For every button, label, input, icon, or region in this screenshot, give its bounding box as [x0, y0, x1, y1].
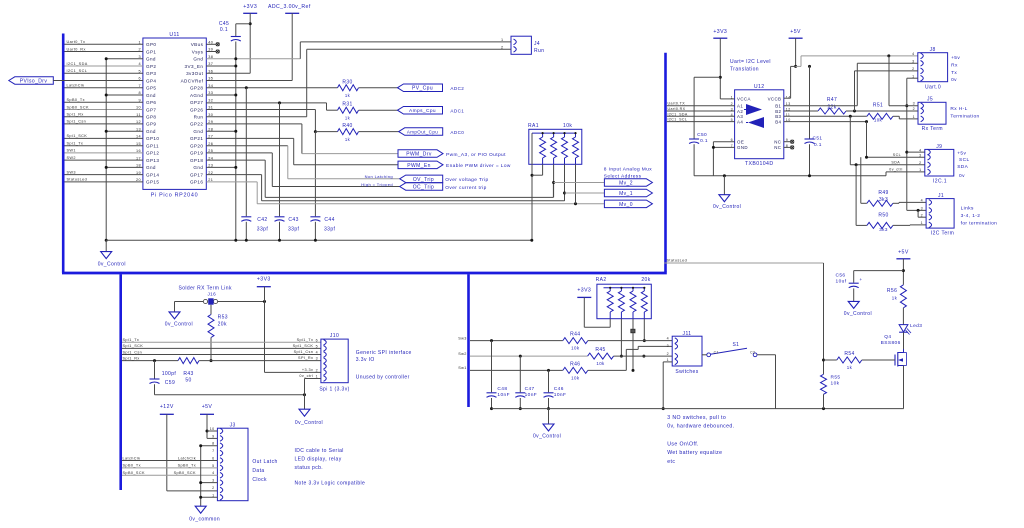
svg-text:LatchClk: LatchClk: [67, 84, 85, 88]
svg-text:R40: R40: [342, 123, 352, 129]
svg-text:GP28: GP28: [190, 86, 203, 91]
resistor R55: [821, 374, 841, 408]
svg-text:Spi1_Tx: Spi1_Tx: [67, 142, 84, 146]
node Mv_2 flag: [554, 179, 653, 187]
svg-text:VCCA: VCCA: [737, 97, 751, 102]
svg-text:Amps_Cpu: Amps_Cpu: [409, 108, 436, 114]
text logic note: [295, 481, 366, 487]
power +3V3 bottom right: [577, 287, 610, 327]
svg-text:Sw1: Sw1: [458, 366, 467, 370]
svg-text:0.1: 0.1: [220, 27, 228, 33]
wire RA1 r1 leg: [532, 164, 543, 175]
svg-text:2: 2: [921, 213, 923, 217]
svg-text:GP21: GP21: [190, 136, 203, 141]
wire RA1 r3 leg: [563, 164, 566, 201]
svg-text:RA1: RA1: [528, 123, 539, 129]
svg-text:Sw3: Sw3: [458, 336, 467, 340]
svg-text:C43: C43: [288, 217, 298, 223]
svg-text:Mv_0: Mv_0: [619, 202, 633, 208]
wire SpB0_SCK row: [122, 471, 217, 475]
node Mv_1 flag: [565, 189, 653, 197]
svg-text:Enable PWM driver = Low: Enable PWM driver = Low: [446, 163, 511, 169]
connector J3: [210, 423, 278, 501]
svg-text:C56: C56: [836, 273, 846, 279]
node OC_Trip flag: [400, 183, 487, 191]
wire GP22 to PWM_Drv: [206, 124, 398, 154]
svg-text:GP6: GP6: [146, 100, 156, 105]
svg-text:BSS806: BSS806: [881, 340, 901, 346]
capacitor C47: [515, 356, 537, 410]
svg-text:R55: R55: [831, 375, 841, 381]
svg-text:8 Input Analog Mux: 8 Input Analog Mux: [604, 167, 652, 173]
svg-text:Gnd: Gnd: [146, 93, 156, 98]
svg-text:GP27: GP27: [190, 100, 203, 105]
svg-text:1k: 1k: [847, 365, 853, 370]
wire Sw2 row: [458, 352, 587, 358]
node Amps_Cpu flag: [398, 107, 465, 115]
svg-text:R51: R51: [873, 103, 883, 109]
svg-text:Termination: Termination: [950, 114, 979, 120]
svg-text:+3V3: +3V3: [243, 4, 257, 10]
svg-text:0v_Control: 0v_Control: [713, 204, 741, 210]
svg-text:10k: 10k: [563, 123, 572, 129]
svg-text:SPI_Rx: SPI_Rx: [298, 356, 313, 360]
svg-text:3 NO switches, pull to: 3 NO switches, pull to: [667, 415, 726, 421]
svg-text:3-4, 1-2: 3-4, 1-2: [961, 213, 981, 219]
capacitor C46: [544, 370, 567, 410]
svg-text:Spi1_SCK: Spi1_SCK: [123, 344, 144, 348]
svg-text:+5V: +5V: [202, 404, 213, 410]
svg-text:R54: R54: [844, 351, 854, 357]
ground 0v_common: [189, 506, 220, 522]
svg-text:Uart.0: Uart.0: [925, 85, 941, 91]
wire J16 left to gnd: [175, 302, 204, 312]
svg-text:+12V: +12V: [160, 404, 174, 410]
svg-text:Run: Run: [194, 115, 204, 120]
resistor R30: [206, 80, 397, 99]
svg-text:Links: Links: [961, 206, 974, 212]
svg-text:Data: Data: [252, 468, 264, 474]
svg-text:GP17: GP17: [190, 172, 203, 177]
svg-text:GP5: GP5: [146, 86, 156, 91]
U11 pin names and numbers: [136, 41, 213, 185]
wire J3 gnd pins: [199, 444, 217, 506]
node PWM_En flag: [398, 161, 511, 169]
svg-text:PVIso_Drv: PVIso_Drv: [20, 79, 48, 85]
connector J4: [501, 36, 544, 54]
wire GP18 step: [206, 160, 553, 197]
svg-text:10k: 10k: [831, 380, 840, 386]
svg-text:R45: R45: [595, 347, 605, 353]
U12 part name: [745, 161, 774, 167]
wire Q4 source to rail: [903, 366, 905, 409]
svg-text:Unused by controller: Unused by controller: [356, 375, 410, 381]
wire SPI rows: [122, 338, 321, 354]
wire J11 pin1 to rail: [662, 362, 673, 410]
svg-text:20k: 20k: [218, 322, 227, 328]
svg-text:B1: B1: [775, 104, 781, 109]
led Led3: [899, 323, 922, 349]
svg-text:4: 4: [919, 148, 921, 152]
svg-text:4: 4: [912, 52, 914, 56]
svg-text:R46: R46: [570, 362, 580, 368]
svg-text:Spi1_Tx: Spi1_Tx: [123, 338, 140, 342]
svg-text:GP9: GP9: [146, 122, 156, 127]
svg-text:GP10: GP10: [146, 136, 159, 141]
svg-text:2: 2: [919, 161, 921, 165]
sheet border top-right vertical: [664, 53, 667, 272]
svg-text:Wet battery equalize: Wet battery equalize: [667, 450, 722, 456]
svg-text:10: 10: [210, 427, 215, 431]
wire J16 right to +3V3: [218, 300, 266, 303]
svg-text:0.1: 0.1: [700, 138, 708, 144]
sheet divider horizontal: [62, 272, 667, 275]
resistor R50: [856, 165, 926, 232]
svg-text:Gnd: Gnd: [146, 129, 156, 134]
svg-text:Spi1_SCK: Spi1_SCK: [67, 134, 88, 138]
svg-text:J9: J9: [936, 144, 942, 150]
svg-text:4: 4: [212, 471, 214, 475]
svg-text:Gnd: Gnd: [193, 57, 203, 62]
svg-text:ADC1: ADC1: [450, 109, 464, 114]
power +3V3 right sheet: [713, 29, 734, 99]
wire Sw1 row: [458, 366, 563, 372]
node Mv_0 flag: [604, 200, 652, 208]
power +5V bottom right: [896, 250, 910, 285]
svg-text:1k: 1k: [892, 296, 898, 301]
svg-text:10k: 10k: [571, 376, 580, 381]
connector J8: [912, 47, 948, 91]
wire StatusLed row: [664, 259, 823, 264]
sheet border top-left vertical: [62, 34, 65, 274]
svg-text:1: 1: [921, 221, 923, 225]
svg-text:Spi1_Rx: Spi1_Rx: [123, 356, 140, 360]
svg-text:NC: NC: [774, 140, 781, 145]
text solder link note: [179, 286, 232, 292]
wire J4 pin2 to Run: [206, 49, 511, 116]
svg-text:SW3: SW3: [67, 170, 76, 174]
svg-text:J4: J4: [534, 41, 540, 47]
capacitor C45: [219, 21, 250, 240]
svg-text:33pf: 33pf: [288, 227, 300, 233]
svg-text:Uart0.RX: Uart0.RX: [668, 107, 686, 111]
resistor R40: [206, 110, 398, 142]
svg-text:U11: U11: [169, 32, 179, 38]
svg-text:0v_Control: 0v_Control: [165, 322, 193, 328]
node PWM_Drv flag: [398, 150, 506, 158]
svg-text:I2C1_SCL: I2C1_SCL: [67, 69, 88, 73]
svg-text:9: 9: [212, 434, 214, 438]
text J8 net names: [951, 55, 960, 83]
svg-text:+3V3: +3V3: [713, 29, 727, 35]
wire RA1 r4 leg: [575, 164, 577, 204]
wire B1 row: [784, 105, 858, 107]
svg-text:for termination: for termination: [961, 221, 998, 227]
svg-text:R31: R31: [342, 102, 352, 108]
svg-text:J3: J3: [230, 423, 236, 429]
svg-text:Generic SPI interface: Generic SPI interface: [356, 350, 412, 356]
svg-text:R43: R43: [183, 371, 193, 377]
U12 pin names and numbers: [731, 95, 791, 150]
svg-text:3: 3: [316, 357, 318, 361]
wire RA2 leg3: [631, 319, 635, 372]
svg-text:GP26: GP26: [190, 107, 203, 112]
wire 0v rail bottom right: [492, 407, 904, 410]
svg-text:C42: C42: [257, 217, 267, 223]
wire J8 Rx: [857, 63, 918, 105]
svg-text:3k3: 3k3: [879, 227, 888, 232]
svg-text:Solder RX Term Link: Solder RX Term Link: [179, 286, 232, 292]
svg-text:4: 4: [316, 351, 318, 355]
wire +5v link to J5 top: [889, 56, 918, 106]
node PVIso_Drv flag: [9, 77, 65, 85]
svg-text:SpB0_Tx: SpB0_Tx: [123, 464, 141, 468]
sheet border bottom-right vertical: [467, 274, 470, 407]
svg-text:50: 50: [185, 378, 191, 384]
svg-text:Rx: Rx: [951, 62, 958, 68]
text SPI note: [356, 350, 412, 380]
svg-text:I2C1_SCL: I2C1_SCL: [668, 118, 688, 122]
resistor array RA1: [528, 123, 582, 164]
power +5V right sheet: [784, 29, 803, 98]
connector J9: [919, 144, 954, 185]
svg-text:1: 1: [913, 115, 915, 119]
svg-text:SCL: SCL: [959, 157, 970, 163]
svg-text:SpB0_SCK: SpB0_SCK: [174, 471, 196, 475]
svg-text:C46: C46: [554, 386, 564, 392]
svg-text:B2: B2: [775, 109, 781, 114]
svg-text:GP11: GP11: [146, 144, 159, 149]
svg-text:R44: R44: [570, 332, 580, 338]
capacitor C59: [150, 361, 176, 395]
svg-text:0v_common: 0v_common: [189, 517, 220, 523]
svg-text:GND: GND: [737, 145, 748, 150]
capacitor C56: [836, 271, 904, 302]
svg-text:+3V3: +3V3: [257, 277, 271, 283]
svg-text:Mv_2: Mv_2: [619, 181, 633, 187]
svg-text:4: 4: [667, 337, 669, 341]
wire gnd bus left: [105, 57, 108, 242]
capacitor C48: [487, 341, 510, 411]
svg-text:0v_Control: 0v_Control: [98, 262, 126, 268]
node OV_Trip flag: [400, 175, 489, 183]
svg-text:1k: 1k: [345, 116, 351, 121]
resistor R31: [206, 102, 397, 121]
wire GP21 to PWM_En: [206, 138, 398, 164]
svg-text:7: 7: [212, 449, 214, 453]
node ADC_3.00v_Ref: [206, 4, 311, 81]
svg-text:Pwm_A3, or PIO Output: Pwm_A3, or PIO Output: [446, 152, 506, 158]
resistor R53: [208, 305, 228, 362]
svg-text:SDA: SDA: [957, 164, 968, 170]
wire Spi1_Rx row left: [122, 356, 178, 362]
svg-text:33pf: 33pf: [324, 227, 336, 233]
svg-text:1: 1: [316, 375, 318, 379]
svg-text:Over current trip: Over current trip: [445, 185, 486, 191]
svg-text:LED display, relay: LED display, relay: [295, 457, 342, 463]
svg-text:Vsys: Vsys: [192, 49, 204, 54]
text J1 note: [961, 206, 998, 227]
wire 0v_ctrl row: [886, 168, 925, 176]
no-connect U12 NC pins: [784, 140, 794, 149]
svg-text:0v_ctrl: 0v_ctrl: [299, 374, 313, 378]
sheet border bottom-left vertical: [119, 274, 122, 490]
svg-text:0v_Control: 0v_Control: [533, 434, 561, 440]
svg-text:3: 3: [667, 344, 669, 348]
svg-text:Run: Run: [534, 48, 544, 54]
svg-text:1: 1: [212, 493, 214, 497]
svg-text:2: 2: [913, 107, 915, 111]
svg-text:LatchClk: LatchClk: [178, 456, 196, 460]
svg-text:3: 3: [919, 153, 921, 157]
svg-text:Spi1_Rx: Spi1_Rx: [67, 113, 84, 117]
wire gnd bus right stubs: [206, 57, 300, 242]
ground 0v_Control J16: [165, 312, 193, 328]
svg-text:6: 6: [212, 457, 214, 461]
svg-text:5: 5: [212, 464, 214, 468]
svg-text:Clock: Clock: [252, 477, 267, 483]
wire Sw3 row: [458, 336, 563, 342]
svg-text:VBus: VBus: [191, 42, 204, 47]
wire LatchClk row: [122, 456, 217, 460]
svg-text:GP18: GP18: [190, 158, 203, 163]
svg-text:J16: J16: [207, 292, 216, 297]
svg-text:Spi 1 (3.3v): Spi 1 (3.3v): [319, 387, 349, 393]
connector J5: [913, 97, 946, 133]
svg-text:Use On\Off.: Use On\Off.: [667, 442, 699, 448]
svg-text:C47: C47: [525, 386, 535, 392]
svg-text:SCL: SCL: [893, 153, 901, 157]
wire SpB0_Tx row: [122, 464, 217, 468]
ground 0v_Control: [98, 240, 126, 267]
svg-text:ADC0: ADC0: [450, 130, 464, 135]
svg-text:I2C Term: I2C Term: [931, 231, 954, 237]
connector J10: [316, 333, 350, 393]
resistor R56: [887, 285, 907, 325]
text IDC note: [295, 448, 344, 471]
power +3V3 bottom left: [257, 277, 321, 373]
svg-text:LatchClk: LatchClk: [123, 456, 141, 460]
wire S1 to rail: [757, 355, 775, 409]
svg-text:+5v: +5v: [957, 151, 966, 157]
svg-text:0v_Control: 0v_Control: [844, 311, 872, 317]
svg-text:R56: R56: [887, 288, 897, 294]
svg-text:ADC_3.00v_Ref: ADC_3.00v_Ref: [268, 4, 311, 10]
wire RA2 leg2: [620, 319, 623, 358]
svg-text:I2C1_SDA: I2C1_SDA: [668, 112, 688, 116]
svg-text:3: 3: [913, 102, 915, 106]
svg-text:SW1: SW1: [67, 149, 76, 153]
svg-text:3V3_En: 3V3_En: [185, 64, 204, 69]
capacitor C42: [241, 88, 268, 242]
svg-text:Translation: Translation: [730, 67, 759, 73]
svg-text:GP1: GP1: [146, 49, 156, 54]
svg-text:StatusLed: StatusLed: [667, 259, 688, 263]
wire RA1 r2 leg: [552, 164, 555, 197]
svg-text:R53: R53: [218, 315, 228, 321]
svg-text:VCCB: VCCB: [768, 97, 782, 102]
svg-text:R49: R49: [878, 190, 888, 196]
wire GP19 to OC_Trip: [206, 153, 399, 187]
svg-text:GP13: GP13: [146, 158, 159, 163]
svg-text:0.1: 0.1: [814, 142, 822, 148]
wire SCL row: [865, 122, 925, 159]
svg-text:A2: A2: [737, 109, 743, 114]
resistor R47: [784, 97, 918, 114]
svg-text:Uart= I2C Level: Uart= I2C Level: [730, 59, 771, 65]
svg-text:GP16: GP16: [190, 180, 203, 185]
wire 0v rail: [106, 239, 532, 241]
svg-text:SDA: SDA: [891, 160, 900, 164]
svg-text:SpB0_SCK: SpB0_SCK: [67, 105, 89, 109]
resistor R46: [563, 346, 672, 380]
svg-text:J10: J10: [330, 333, 339, 339]
svg-text:2: 2: [501, 45, 504, 49]
svg-text:GP8: GP8: [146, 115, 156, 120]
svg-text:0v_ctrl: 0v_ctrl: [889, 168, 902, 172]
svg-text:Note 3.3v Logic compatible: Note 3.3v Logic compatible: [295, 481, 366, 487]
svg-text:1k: 1k: [345, 93, 351, 98]
svg-text:TXB0104D: TXB0104D: [745, 161, 774, 167]
wire C59 gnd rail: [155, 393, 307, 396]
svg-text:etc: etc: [667, 459, 675, 465]
svg-text:Led3: Led3: [910, 323, 922, 329]
svg-text:C2: C2: [750, 350, 755, 354]
svg-text:10nF: 10nF: [525, 392, 538, 398]
svg-text:+: +: [860, 277, 863, 282]
svg-text:Mv_1: Mv_1: [619, 191, 633, 197]
svg-text:3.3v IO: 3.3v IO: [356, 357, 375, 363]
svg-text:Out Latch: Out Latch: [252, 459, 277, 465]
svg-text:ADC2: ADC2: [450, 86, 464, 91]
svg-text:GP15: GP15: [146, 180, 159, 185]
svg-text:5: 5: [316, 344, 318, 348]
svg-text:GP3: GP3: [146, 71, 156, 76]
ground C56: [844, 301, 872, 317]
svg-text:20k: 20k: [641, 277, 650, 283]
svg-text:1k: 1k: [345, 137, 351, 142]
text mux header: [604, 167, 652, 180]
node AmpOut_Cpu flag: [399, 128, 465, 136]
text trip notes: [361, 174, 393, 187]
svg-text:+5V: +5V: [790, 29, 801, 35]
svg-text:R30: R30: [342, 80, 352, 86]
node PV_Cpu flag: [398, 84, 465, 92]
svg-text:PWM_En: PWM_En: [407, 163, 431, 169]
svg-text:StatusLed: StatusLed: [67, 178, 88, 182]
power +12V: [160, 404, 218, 491]
ic U12 box: [735, 84, 784, 159]
connector J16: [203, 292, 217, 305]
svg-text:Gnd: Gnd: [146, 57, 156, 62]
capacitor C50: [689, 77, 720, 176]
svg-text:0v_Control: 0v_Control: [295, 420, 323, 426]
svg-text:6: 6: [316, 338, 318, 342]
wire OE GND stubs: [712, 142, 735, 176]
resistor R45: [588, 347, 673, 366]
wire 0v rail right sheet: [694, 174, 886, 177]
svg-text:J1: J1: [938, 193, 944, 199]
svg-text:GP4: GP4: [146, 78, 156, 83]
svg-text:4: 4: [921, 199, 923, 203]
svg-text:Uart0.TX: Uart0.TX: [668, 102, 686, 106]
svg-text:Uart0_Rx: Uart0_Rx: [67, 47, 86, 51]
resistor R43: [162, 358, 321, 384]
svg-text:A1: A1: [737, 104, 743, 109]
svg-text:I2C1_SDA: I2C1_SDA: [67, 62, 88, 66]
svg-text:C59: C59: [165, 380, 175, 386]
wire RA1 common: [530, 133, 533, 242]
